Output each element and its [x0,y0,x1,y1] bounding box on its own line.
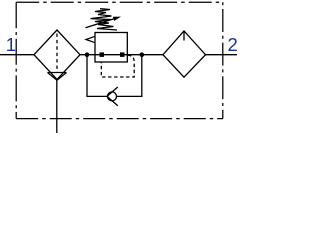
regulator R1: valve seat (inlet square) [100,52,105,57]
regulator R1: relief vent triangle [86,36,95,42]
lubricator L1: body (diamond) [163,31,206,77]
enclosure frame: right edge (dash-dot) [222,2,224,118]
filter F1: filter element (dashed centre line) [56,34,58,73]
lubricator L1: oil drip line [183,31,185,41]
enclosure frame: bottom edge (dash-dot) [16,118,223,120]
filter F1: body (diamond) [34,30,80,79]
check valve V1: ball [108,92,117,101]
enclosure frame: top edge (dash-dot) [16,1,223,3]
node: filter outlet junction [85,52,90,57]
regulator R1: adjustment spring [91,9,118,30]
port label 2 [228,34,238,55]
regulator R1: adjustability arrow [86,17,122,28]
wire: port 2 outlet line [206,54,238,56]
svg-text:1: 1 [6,34,16,55]
wire: bypass loop around regulator [87,55,142,97]
check valve V1: seat [107,87,118,106]
enclosure frame: left edge (dash-dot) [15,2,17,118]
wire: filter outlet to lubricator inlet (through regulator) [80,54,163,56]
regulator R1: body [95,33,127,63]
filter F1: condensate drain line [56,80,58,133]
svg-text:2: 2 [228,34,238,55]
regulator R1: valve seat (outlet square) [120,52,125,57]
regulator R1: pilot sensing line (dashed) [101,55,134,77]
filter F1: water separator triangle [48,73,67,81]
wire: port 1 inlet line [0,54,34,56]
port label 1 [6,34,16,55]
node: regulator outlet junction [140,52,145,57]
